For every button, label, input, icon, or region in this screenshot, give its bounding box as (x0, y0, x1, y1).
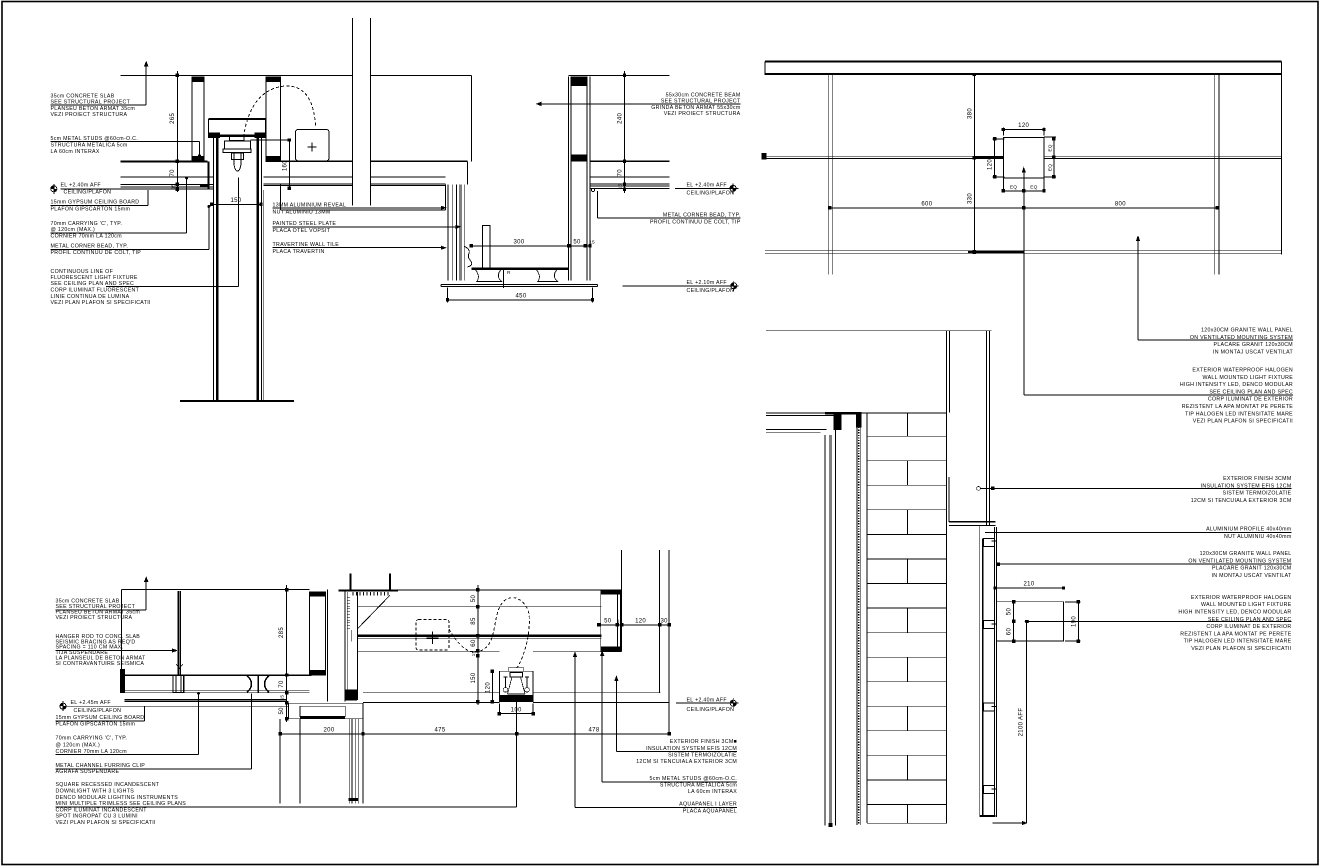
brick wall edges (867, 413, 947, 824)
heavy joint segment at fixture (974, 156, 1003, 158)
svg-text:PROFIL CONTINUU DE COLT, TIP: PROFIL CONTINUU DE COLT, TIP (650, 220, 741, 226)
hanger box in recess (483, 226, 491, 269)
dim 120 left of downlight (491, 671, 493, 701)
svg-text:5cm METAL STUDS @60cm-O.C.: 5cm METAL STUDS @60cm-O.C. (51, 136, 139, 142)
svg-text:SEE CEILING PLAN AND SPEC: SEE CEILING PLAN AND SPEC (51, 281, 135, 287)
hanger rod (178, 591, 180, 675)
window head box (288, 703, 363, 719)
wall face pair inner above window (946, 331, 949, 413)
level symbol EL+2.40 left (51, 182, 111, 195)
text aluminium reveal (273, 202, 446, 215)
svg-text:METAL CHANNEL FURRING CLIP: METAL CHANNEL FURRING CLIP (56, 763, 146, 769)
svg-text:EXTERIOR FINISH 3CM■: EXTERIOR FINISH 3CM■ (670, 739, 737, 745)
junction box D3 (416, 620, 449, 651)
svg-text:CEILING/PLAFON: CEILING/PLAFON (74, 708, 122, 714)
fluorescent fixture body (230, 137, 244, 141)
level EL+2.40 right D3 (676, 697, 739, 713)
text aluminium profile D4 (985, 527, 1292, 540)
dim EQ EQ below box (1003, 178, 1044, 193)
column bottom break line (180, 400, 294, 402)
svg-text:LINIE CONTINUA DE LUMINA: LINIE CONTINUA DE LUMINA (51, 294, 130, 300)
EIFS zone below head (948, 477, 950, 522)
text concrete slab D1 (51, 62, 148, 118)
seismic brace diagonal (358, 595, 390, 628)
svg-text:HIGH INTENSITY LED, DENCO MODU: HIGH INTENSITY LED, DENCO MODULAR (1178, 610, 1291, 616)
svg-text:VEZI PROIECT STRUCTURA: VEZI PROIECT STRUCTURA (56, 615, 133, 621)
conduit S-curve D3 (449, 598, 529, 668)
right bay fascia heavy band (358, 635, 602, 637)
dim 450 (448, 288, 593, 303)
svg-text:SI CONTRAVANTUIRE SEISMICA: SI CONTRAVANTUIRE SEISMICA (56, 661, 145, 667)
svg-text:120x30CM GRANITE WALL PANEL: 120x30CM GRANITE WALL PANEL (1200, 551, 1292, 557)
svg-text:VEZI PROIECT STRUCTURA: VEZI PROIECT STRUCTURA (51, 112, 128, 118)
wavy tile profiles on sill (475, 269, 502, 281)
downlight reflector (510, 673, 523, 678)
dim 210 (995, 587, 1063, 589)
text carrying channel D3 (56, 692, 200, 755)
EIFS wall right of bay (621, 550, 669, 734)
slab bottom line left bay (121, 674, 311, 676)
svg-text:ON VENTILATED MOUNTING SYSTEM: ON VENTILATED MOUNTING SYSTEM (1188, 558, 1291, 564)
svg-text:EQ: EQ (1048, 164, 1054, 171)
svg-text:PROFIL CONTINUU DE COLT, TIP: PROFIL CONTINUU DE COLT, TIP (51, 250, 142, 256)
svg-text:380: 380 (967, 108, 973, 119)
panel joint row A (765, 156, 1282, 158)
svg-text:EXTERIOR FINISH 3CMM: EXTERIOR FINISH 3CMM (1223, 476, 1291, 482)
svg-text:LA 60cm INTERAX: LA 60cm INTERAX (688, 789, 737, 795)
text EIFS D4 (980, 476, 1291, 504)
svg-text:MINI MULTIPLE TRIMLESS SEE CEI: MINI MULTIPLE TRIMLESS SEE CEILING PLANS (56, 801, 187, 807)
dim extension left (279, 719, 281, 804)
anchor plate (339, 589, 398, 591)
svg-text:265: 265 (170, 112, 176, 123)
svg-text:PAINTED STEEL PLATE: PAINTED STEEL PLATE (273, 221, 337, 227)
svg-text:VEZI PLAN PLAFON SI SPECIFICAT: VEZI PLAN PLAFON SI SPECIFICATII (56, 820, 156, 826)
glazing mullion below head (300, 719, 363, 804)
dim 50/15/120/30 (599, 624, 669, 626)
svg-text:EL +2.10m AFF: EL +2.10m AFF (687, 280, 727, 286)
vertical joint left pair (828, 75, 832, 275)
slab edge right of cove (467, 161, 469, 184)
svg-text:IN MONTAJ USCAT VENTILAT: IN MONTAJ USCAT VENTILAT (1211, 573, 1292, 579)
svg-text:PLANSEU BETON ARMAT 35cm: PLANSEU BETON ARMAT 35cm (51, 106, 136, 112)
svg-text:WALL MOUNTED LIGHT FIXTURE: WALL MOUNTED LIGHT FIXTURE (1201, 602, 1292, 608)
svg-text:STRUCTURA METALICA 5cm: STRUCTURA METALICA 5cm (660, 783, 737, 789)
svg-text:70: 70 (618, 169, 624, 177)
svg-text:15: 15 (618, 184, 624, 190)
svg-text:CORP ILUMINAT DE EXTERIOR: CORP ILUMINAT DE EXTERIOR (1208, 397, 1293, 403)
svg-text:STRUCTURA METALICA 5cm: STRUCTURA METALICA 5cm (51, 143, 128, 149)
furring clip symbol (247, 676, 269, 693)
travertine wall tiles section (448, 185, 464, 281)
svg-text:REZISTENT LA APA MONTAT PE PER: REZISTENT LA APA MONTAT PE PERETE (1182, 404, 1293, 410)
svg-text:CEILING/PLAFON: CEILING/PLAFON (64, 190, 112, 196)
svg-text:120x30CM GRANITE WALL PANEL: 120x30CM GRANITE WALL PANEL (1201, 328, 1293, 334)
svg-text:150: 150 (471, 672, 477, 683)
text corner bead right D1 (597, 191, 740, 226)
svg-text:EL +2.40m AFF: EL +2.40m AFF (687, 697, 727, 703)
svg-text:PLAFON GIPSCARTON 15mm: PLAFON GIPSCARTON 15mm (51, 206, 131, 212)
svg-text:285: 285 (279, 627, 285, 638)
text halogen fixture D2 (1024, 368, 1293, 425)
svg-text:CONTINUOUS LINE OF: CONTINUOUS LINE OF (51, 269, 114, 275)
brick head joints (906, 413, 908, 824)
svg-text:EQ: EQ (1030, 185, 1037, 191)
svg-text:DOWNLIGHT WITH 3 LIGHTS: DOWNLIGHT WITH 3 LIGHTS (56, 789, 135, 795)
text furring clip D3 (56, 694, 252, 776)
dim stack 50/85/60/15/150 (477, 585, 479, 705)
brick wall bottom (867, 822, 947, 824)
svg-text:330: 330 (967, 193, 973, 204)
head corner block (834, 413, 841, 430)
travertine sill plate (441, 285, 598, 287)
window frame verticals (825, 413, 836, 826)
svg-text:EL +2.40m AFF: EL +2.40m AFF (687, 183, 727, 189)
EIFS zone bottom (949, 521, 995, 523)
furring channel clip (173, 675, 184, 693)
text metal studs D3 (601, 651, 738, 795)
lower ceiling lines right bay (363, 693, 669, 703)
svg-text:15: 15 (617, 618, 623, 624)
svg-text:VEZI PLAN PLAFON SI SPECIFICAT: VEZI PLAN PLAFON SI SPECIFICATII (1191, 646, 1291, 652)
fluorescent leader (106, 178, 239, 287)
text travertine wall tile (273, 242, 446, 255)
svg-text:30: 30 (661, 618, 669, 624)
text concrete beam D1 right (537, 93, 741, 118)
stud column B (266, 77, 281, 161)
svg-text:EL +2.45m AFF: EL +2.45m AFF (71, 700, 111, 706)
recess shelf heavy line (471, 268, 569, 270)
svg-text:200: 200 (323, 727, 334, 733)
svg-text:PLACA TRAVERTIN: PLACA TRAVERTIN (273, 249, 325, 255)
ceiling lines left bay (120, 160, 207, 162)
svg-text:50: 50 (279, 707, 285, 715)
right bay soffit line (358, 650, 602, 652)
vertical joint right pair (1215, 75, 1219, 275)
dim 190 (1065, 602, 1081, 641)
ceiling lines right bay D1 (590, 160, 670, 162)
cove wall right (257, 137, 259, 401)
text corner bead D1 (51, 206, 210, 257)
svg-text:240: 240 (618, 112, 624, 123)
granite assembly bottom (980, 815, 996, 817)
svg-text:CORP ILUMINAT FLUORESCENT: CORP ILUMINAT FLUORESCENT (51, 288, 140, 294)
svg-text:50: 50 (604, 618, 612, 624)
svg-text:CORNIER 70mm LA 120cm: CORNIER 70mm LA 120cm (56, 749, 128, 755)
svg-text:120: 120 (486, 682, 492, 693)
svg-text:WALL MOUNTED LIGHT FIXTURE: WALL MOUNTED LIGHT FIXTURE (1203, 375, 1294, 381)
svg-text:50: 50 (471, 595, 477, 603)
granite panel lines (994, 527, 996, 817)
junction box D1 (295, 129, 329, 161)
svg-text:PLAFON GIPSCARTON 15mm: PLAFON GIPSCARTON 15mm (56, 722, 136, 728)
svg-text:210: 210 (1023, 581, 1034, 587)
svg-text:2100 AFF: 2100 AFF (1019, 708, 1025, 737)
wall face pair outer (987, 331, 990, 525)
dim 120 left of box (993, 139, 1005, 177)
aluminium clips (984, 539, 995, 547)
window head lines (766, 412, 947, 414)
svg-text:5cm METAL STUDS @60cm-O.C.: 5cm METAL STUDS @60cm-O.C. (649, 776, 737, 782)
right bay upper ceiling line (358, 606, 602, 608)
elevation edge verticals (765, 62, 1282, 255)
granite panel leader (1137, 237, 1140, 341)
downlight mounting tab (509, 667, 524, 671)
dim 380/330 vertical (973, 75, 975, 252)
svg-text:AQUAPANEL I LAYER: AQUAPANEL I LAYER (679, 801, 737, 807)
dim 600/800 (830, 207, 1217, 209)
slab soffit line top (120, 74, 669, 76)
svg-text:REZISTENT LA APA MONTAT PE PER: REZISTENT LA APA MONTAT PE PERETE (1180, 631, 1291, 637)
main column verticals (328, 590, 345, 702)
stud column A (192, 77, 204, 161)
svg-text:15mm GYPSUM CEILING BOARD: 15mm GYPSUM CEILING BOARD (56, 715, 145, 721)
svg-text:70mm CARRYING 'C', TYP.: 70mm CARRYING 'C', TYP. (51, 221, 123, 227)
svg-text:EXTERIOR WATERPROOF HALOGEN: EXTERIOR WATERPROOF HALOGEN (1192, 368, 1293, 374)
mullion through slab (353, 18, 371, 205)
left bay ceiling lines (121, 690, 309, 699)
granite panel joints (992, 541, 997, 789)
corner bead at cove left (207, 161, 209, 189)
svg-text:35cm CONCRETE SLAB: 35cm CONCRETE SLAB (51, 93, 115, 99)
svg-text:478: 478 (588, 727, 599, 733)
svg-text:EQ: EQ (1048, 144, 1054, 151)
text halogen D4 (1026, 595, 1291, 652)
text concrete slab D3 (56, 578, 148, 621)
svg-text:70: 70 (170, 169, 176, 177)
svg-text:PLACARE GRANIT 120x30CM: PLACARE GRANIT 120x30CM (1214, 342, 1293, 348)
recessed cove box (209, 118, 266, 120)
brick course lines (867, 436, 947, 804)
dim stack left 265/70/15 (176, 71, 178, 192)
EIFS leader circle (977, 487, 981, 491)
svg-text:GRINDA BETON ARMAT 55x30cm: GRINDA BETON ARMAT 55x30cm (651, 105, 741, 111)
svg-text:METAL CORNER BEAD, TYP.: METAL CORNER BEAD, TYP. (51, 244, 129, 250)
text metal studs D1 (51, 136, 201, 157)
downlight bulbs (504, 677, 530, 687)
dim stack left 285/70/15/50 (286, 585, 288, 722)
dim 150 cove width (212, 203, 261, 205)
level EL+2.10 right D1 (623, 280, 739, 294)
corner bead circle right (592, 189, 595, 192)
svg-text:DENCO MODULAR LIGHTING INSTRUM: DENCO MODULAR LIGHTING INSTRUMENTS (56, 795, 179, 801)
cove wall left (212, 137, 214, 401)
svg-text:12CM SI TENCUIALA EXTERIOR 3CM: 12CM SI TENCUIALA EXTERIOR 3CM (636, 759, 737, 765)
text EIFS D3 (615, 677, 737, 766)
panel joint row B (765, 251, 1282, 254)
conduit dashed curve D1 (244, 86, 316, 137)
cove fascia blade (281, 185, 446, 210)
svg-text:50: 50 (1007, 608, 1013, 616)
text hanger rod D3 (56, 634, 177, 667)
slab left edge (120, 590, 122, 670)
svg-text:475: 475 (434, 727, 445, 733)
svg-text:120: 120 (987, 159, 993, 170)
svg-text:VEZI PLAN PLAFON SI SPECIFICAT: VEZI PLAN PLAFON SI SPECIFICATII (1193, 419, 1293, 425)
parapet heavy line 1 (765, 60, 1282, 62)
text carrying channel D1 (51, 177, 188, 240)
svg-text:70: 70 (279, 680, 285, 688)
svg-text:CEILING/PLAFON: CEILING/PLAFON (687, 190, 735, 196)
text gypsum board D3 (56, 706, 145, 727)
svg-text:@ 120cm (MAX.): @ 120cm (MAX.) (56, 742, 101, 748)
comb hatch under plate (353, 592, 388, 596)
svg-text:EQ: EQ (1010, 185, 1017, 191)
dim 120 above box (1003, 128, 1044, 136)
svg-text:PLACA AQUAPANEL: PLACA AQUAPANEL (683, 808, 737, 814)
svg-text:60: 60 (471, 639, 477, 647)
slab edge vertical right of cove (470, 75, 472, 161)
fixture leader down (1022, 168, 1025, 395)
svg-text:LA 60cm INTERAX: LA 60cm INTERAX (51, 149, 100, 155)
svg-text:55x30cm CONCRETE BEAM: 55x30cm CONCRETE BEAM (666, 93, 741, 99)
svg-text:TIP HALOGEN LED INTENSITATE MA: TIP HALOGEN LED INTENSITATE MARE (1185, 411, 1293, 417)
svg-text:PLACA OTEL VOPSIT: PLACA OTEL VOPSIT (273, 228, 331, 234)
dim EQ EQ right of box (1044, 137, 1056, 177)
svg-text:15: 15 (170, 184, 176, 190)
svg-text:PLACARE GRANIT 120x30CM: PLACARE GRANIT 120x30CM (1212, 566, 1291, 572)
heavy cut mark on row B (968, 251, 1024, 253)
stud wall left of column (310, 592, 326, 675)
level EL+2.40 right D1 (675, 183, 739, 197)
svg-text:120: 120 (1018, 123, 1029, 129)
svg-text:60: 60 (1007, 628, 1013, 636)
svg-text:CEILING/PLAFON: CEILING/PLAFON (687, 288, 735, 294)
wall light fixture box (1003, 138, 1044, 179)
svg-text:AGRAFA SUSPENDARE: AGRAFA SUSPENDARE (56, 769, 120, 775)
column bottom track (346, 690, 356, 700)
travertine corner wavy tile (464, 247, 471, 268)
dim 160 (251, 140, 292, 188)
svg-text:NUT ALUMINIU 40x40mm: NUT ALUMINIU 40x40mm (1224, 534, 1292, 540)
downlight fixture box (499, 671, 533, 701)
svg-text:450: 450 (515, 293, 526, 299)
svg-text:ALUMINIUM PROFILE 40x40mm: ALUMINIUM PROFILE 40x40mm (1206, 527, 1292, 533)
text aquapanel D3 (574, 653, 737, 815)
svg-text:VEZI PLAN PLAFON SI SPECIFICAT: VEZI PLAN PLAFON SI SPECIFICATII (51, 300, 151, 306)
svg-text:CORNIER 70mm LA 120cm: CORNIER 70mm LA 120cm (51, 233, 123, 239)
threaded rod ladder hatch (347, 598, 350, 629)
svg-text:TIP HALOGEN LED INTENSITATE MA: TIP HALOGEN LED INTENSITATE MARE (1184, 639, 1292, 645)
ceiling lines right of cove (266, 160, 468, 162)
svg-text:800: 800 (1115, 202, 1126, 208)
svg-text:EL +2.40m AFF: EL +2.40m AFF (61, 182, 101, 188)
svg-text:SQUARE RECESSED INCANDESCENT: SQUARE RECESSED INCANDESCENT (56, 782, 160, 788)
svg-text:CORP ILUMINAT INCANDESCENT: CORP ILUMINAT INCANDESCENT (56, 807, 148, 813)
svg-text:CEILING/PLAFON: CEILING/PLAFON (687, 707, 735, 713)
text painted steel plate (273, 221, 461, 234)
parapet heavy line 2 (765, 73, 1282, 75)
level symbol EL+2.45 left D3 (60, 700, 121, 714)
anchor bolts (351, 573, 390, 589)
svg-text:50: 50 (573, 239, 581, 245)
svg-text:VEZI PROIECT STRUCTURA: VEZI PROIECT STRUCTURA (664, 111, 741, 117)
dim stack right 240/70/15 (624, 71, 626, 193)
slab top line (121, 589, 601, 591)
svg-text:SISTEM TERMOIZOLATIE: SISTEM TERMOIZOLATIE (1223, 491, 1292, 497)
svg-text:CORP ILUMINAT DE EXTERIOR: CORP ILUMINAT DE EXTERIOR (1206, 624, 1291, 630)
svg-text:INSULATION SYSTEM EFIS 12CM: INSULATION SYSTEM EFIS 12CM (646, 746, 737, 752)
fluorescent lamp bulb (234, 153, 241, 171)
dim 300/50/15 (471, 245, 590, 247)
svg-text:300: 300 (513, 239, 524, 245)
right wall studs D1 (569, 77, 590, 281)
svg-text:IN MONTAJ USCAT VENTILAT: IN MONTAJ USCAT VENTILAT (1213, 349, 1294, 355)
svg-text:EXTERIOR WATERPROOF HALOGEN: EXTERIOR WATERPROOF HALOGEN (1191, 595, 1292, 601)
svg-text:15mm GYPSUM CEILING BOARD: 15mm GYPSUM CEILING BOARD (51, 200, 140, 206)
fascia box right end (600, 590, 602, 652)
finish face line lower (979, 525, 981, 815)
text fluorescent fixture D1 (51, 269, 151, 306)
svg-text:15: 15 (471, 651, 477, 657)
dim 2100 AFF (1025, 621, 1027, 823)
svg-text:70mm CARRYING 'C', TYP.: 70mm CARRYING 'C', TYP. (56, 736, 128, 742)
svg-text:120: 120 (635, 618, 646, 624)
svg-text:@ 120cm (MAX.): @ 120cm (MAX.) (51, 227, 96, 233)
svg-text:SPOT INGROPAT CU 3 LUMINI: SPOT INGROPAT CU 3 LUMINI (56, 814, 138, 820)
svg-text:R: R (507, 270, 511, 276)
halogen fixture plan box (996, 602, 1063, 641)
text granite panel D4 (997, 551, 1292, 579)
text downlight D3 (56, 782, 517, 826)
svg-text:TRAVERTINE WALL TILE: TRAVERTINE WALL TILE (273, 242, 340, 248)
svg-text:160: 160 (283, 160, 289, 171)
dim 50/60 (1013, 602, 1015, 641)
svg-text:85: 85 (471, 617, 477, 625)
downlight center extension (516, 702, 518, 807)
insulation dotted layer (857, 413, 860, 826)
svg-text:SISTEM TERMOIZOLATIE: SISTEM TERMOIZOLATIE (668, 752, 737, 758)
text gypsum board D1 (51, 190, 148, 212)
svg-text:150: 150 (230, 198, 241, 204)
svg-text:600: 600 (921, 202, 932, 208)
dim 100 below downlight (499, 704, 533, 716)
svg-text:12CM SI TENCUIALA EXTERIOR 3CM: 12CM SI TENCUIALA EXTERIOR 3CM (1191, 498, 1292, 504)
dim 200/475/478 (280, 733, 669, 735)
svg-text:NUT ALUMINIU 13MM: NUT ALUMINIU 13MM (273, 210, 331, 216)
joint row A end block (762, 154, 766, 159)
text granite panel D2 (1138, 328, 1293, 356)
wall top cut line (766, 330, 991, 332)
svg-text:SEE CEILING PLAN AND SPEC: SEE CEILING PLAN AND SPEC (1208, 617, 1292, 623)
svg-text:HIGH INTENSITY LED, DENCO MODU: HIGH INTENSITY LED, DENCO MODULAR (1180, 382, 1293, 388)
